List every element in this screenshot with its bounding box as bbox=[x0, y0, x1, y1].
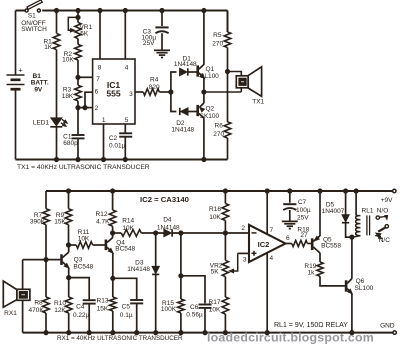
junction bbox=[98, 8, 102, 12]
svg-text:1k: 1k bbox=[308, 270, 316, 277]
transducer RX1 bbox=[3, 281, 30, 317]
diode D5 bbox=[322, 201, 350, 222]
wire bbox=[113, 232, 122, 234]
junction bbox=[44, 331, 48, 335]
svg-text:C2: C2 bbox=[109, 135, 118, 142]
relay contacts bbox=[375, 207, 390, 244]
wire bbox=[112, 226, 114, 233]
wire bbox=[77, 11, 79, 23]
wire bbox=[93, 244, 106, 246]
svg-text:0.1µ: 0.1µ bbox=[120, 312, 133, 319]
wire bbox=[45, 191, 47, 209]
diode D1 bbox=[174, 55, 197, 75]
ground bbox=[154, 50, 170, 57]
wire bbox=[161, 33, 163, 50]
wire bbox=[15, 11, 17, 76]
resistor R10 bbox=[54, 297, 72, 314]
svg-text:27: 27 bbox=[300, 232, 308, 239]
wire bbox=[351, 294, 353, 333]
svg-text:R13: R13 bbox=[97, 298, 109, 305]
transistor Q6 bbox=[346, 278, 374, 294]
diode D4 bbox=[157, 216, 180, 236]
resistor R7 bbox=[30, 209, 49, 226]
wire bbox=[69, 244, 77, 246]
wire pin3 bbox=[238, 252, 249, 254]
svg-text:loadedcircuit.blogspot.com: loadedcircuit.blogspot.com bbox=[207, 331, 374, 345]
svg-text:0.01µ: 0.01µ bbox=[109, 143, 126, 150]
junction bbox=[179, 274, 183, 278]
wire bbox=[172, 232, 249, 234]
junction bbox=[54, 8, 58, 12]
capacitor C3 bbox=[142, 27, 169, 47]
svg-text:10K: 10K bbox=[209, 306, 221, 313]
wire bbox=[204, 91, 241, 93]
capacitor C5 bbox=[120, 300, 143, 319]
wire bbox=[85, 92, 93, 107]
svg-text:C4: C4 bbox=[76, 304, 85, 311]
wire pin1 bbox=[103, 124, 105, 160]
svg-text:RX1: RX1 bbox=[4, 310, 17, 317]
junction bbox=[111, 189, 115, 193]
svg-text:15K: 15K bbox=[54, 218, 66, 225]
junction bbox=[169, 90, 173, 94]
svg-text:100µ: 100µ bbox=[296, 207, 311, 214]
wire bbox=[227, 48, 229, 122]
junction bbox=[179, 231, 183, 235]
wire bbox=[319, 191, 321, 236]
svg-text:R6: R6 bbox=[215, 123, 224, 130]
relay coil RL1 bbox=[352, 207, 374, 237]
junction bbox=[83, 106, 87, 110]
wire bbox=[68, 225, 70, 245]
svg-text:BC558: BC558 bbox=[321, 243, 341, 250]
junction bbox=[135, 331, 139, 335]
svg-text:680p: 680p bbox=[63, 140, 78, 147]
junction bbox=[318, 189, 322, 193]
wire bbox=[16, 159, 228, 161]
wire bbox=[320, 276, 346, 286]
svg-text:0.56µ: 0.56µ bbox=[186, 312, 203, 319]
junction bbox=[76, 75, 80, 79]
junction bbox=[111, 331, 115, 335]
wire bbox=[112, 311, 114, 333]
battery B1 bbox=[7, 65, 49, 93]
wire bbox=[355, 191, 357, 216]
wire bbox=[42, 10, 227, 12]
svg-text:15K: 15K bbox=[97, 305, 109, 312]
svg-text:Q6: Q6 bbox=[356, 278, 365, 285]
resistor R13 bbox=[97, 297, 117, 312]
svg-text:R10: R10 bbox=[54, 300, 66, 307]
wire bbox=[99, 11, 101, 60]
svg-text:SK100: SK100 bbox=[200, 113, 220, 120]
wire pin4 bbox=[266, 253, 268, 333]
transistor Q1 bbox=[198, 64, 219, 80]
terminal GND bbox=[380, 323, 396, 335]
transducer TX1 bbox=[236, 67, 264, 106]
wire bbox=[227, 138, 229, 160]
svg-text:+: + bbox=[18, 65, 23, 74]
resistor R11 bbox=[76, 229, 92, 248]
junction bbox=[223, 189, 227, 193]
junction bbox=[154, 331, 158, 335]
svg-text:5K: 5K bbox=[80, 31, 89, 38]
svg-text:S1: S1 bbox=[28, 13, 36, 20]
svg-text:10K: 10K bbox=[122, 225, 134, 232]
wire bbox=[188, 111, 198, 113]
svg-text:RX1 = 40KHz ULTRASONIC TRANSDU: RX1 = 40KHz ULTRASONIC TRANSDUCER bbox=[57, 335, 183, 342]
resistor R18 bbox=[292, 227, 310, 247]
wire pin5 bbox=[124, 124, 126, 133]
junction bbox=[288, 189, 292, 193]
svg-text:IC2 = CA3140: IC2 = CA3140 bbox=[140, 195, 189, 204]
wire bbox=[180, 233, 182, 299]
wire bbox=[285, 243, 291, 245]
svg-text:1N4148: 1N4148 bbox=[174, 61, 197, 68]
svg-text:C5: C5 bbox=[122, 304, 131, 311]
junction bbox=[344, 189, 348, 193]
wire bbox=[16, 10, 26, 12]
wire bbox=[88, 304, 90, 333]
svg-text:555: 555 bbox=[106, 89, 121, 99]
svg-text:SWITCH: SWITCH bbox=[21, 26, 47, 33]
resistor R15 bbox=[161, 299, 184, 313]
svg-text:5K: 5K bbox=[211, 269, 220, 276]
svg-text:R17: R17 bbox=[209, 299, 221, 306]
svg-text:25V: 25V bbox=[297, 215, 309, 222]
diode D2 bbox=[171, 108, 194, 134]
wire bbox=[112, 191, 114, 210]
wire bbox=[227, 11, 229, 33]
wire bbox=[45, 313, 47, 333]
wire bbox=[56, 11, 58, 34]
svg-text:RL1: RL1 bbox=[362, 207, 374, 214]
svg-text:1K: 1K bbox=[44, 44, 53, 51]
resistor R2 bbox=[62, 44, 81, 63]
wire bbox=[68, 268, 70, 278]
svg-text:TX1: TX1 bbox=[252, 98, 264, 105]
wire bbox=[45, 225, 47, 297]
potentiometer VR1 bbox=[68, 17, 92, 38]
junction bbox=[350, 235, 354, 239]
wire bbox=[46, 190, 393, 192]
wire bbox=[68, 278, 70, 297]
svg-text:18K: 18K bbox=[62, 93, 74, 100]
svg-text:7: 7 bbox=[96, 76, 100, 83]
svg-text:470K: 470K bbox=[29, 307, 45, 314]
LED LED1 bbox=[33, 118, 67, 127]
junction bbox=[67, 331, 71, 335]
svg-text:8: 8 bbox=[98, 64, 102, 71]
resistor R3 bbox=[62, 85, 82, 101]
label RX1 note bbox=[57, 335, 183, 342]
svg-text:LED1: LED1 bbox=[33, 119, 50, 126]
junction bbox=[223, 231, 227, 235]
svg-text:270: 270 bbox=[213, 131, 224, 138]
svg-text:9V: 9V bbox=[34, 86, 43, 93]
svg-text:N/C: N/C bbox=[379, 237, 391, 244]
wire bbox=[228, 72, 242, 93]
wire bbox=[224, 221, 226, 261]
junction bbox=[111, 276, 115, 280]
svg-text:25V: 25V bbox=[143, 40, 155, 47]
junction bbox=[66, 189, 70, 193]
wire bbox=[68, 191, 70, 209]
resistor R4 bbox=[143, 76, 160, 95]
wire bbox=[203, 92, 205, 103]
svg-text:10K: 10K bbox=[78, 236, 90, 243]
capacitor C2 bbox=[109, 133, 132, 149]
svg-text:4: 4 bbox=[125, 64, 129, 71]
svg-text:R8: R8 bbox=[34, 300, 43, 307]
wire bbox=[346, 223, 352, 237]
wire bbox=[319, 253, 321, 262]
resistor R17 bbox=[209, 297, 229, 314]
svg-text:2: 2 bbox=[241, 225, 245, 232]
wire bbox=[351, 237, 353, 279]
resistor R16 bbox=[209, 204, 229, 221]
junction bbox=[67, 276, 71, 280]
wire bbox=[181, 276, 205, 304]
junction bbox=[179, 331, 183, 335]
wire bbox=[204, 308, 206, 333]
wire bbox=[124, 137, 126, 160]
capacitor C4 bbox=[73, 300, 96, 319]
resistor R5 bbox=[212, 32, 231, 48]
svg-text:10K: 10K bbox=[62, 56, 74, 63]
wire bbox=[203, 118, 205, 159]
junction bbox=[203, 331, 207, 335]
svg-text:RL1 = 9V, 150Ω RELAY: RL1 = 9V, 150Ω RELAY bbox=[274, 322, 348, 329]
junction bbox=[354, 189, 358, 193]
junction bbox=[225, 69, 229, 73]
resistor R14 bbox=[121, 218, 141, 237]
junction bbox=[202, 8, 206, 12]
junction bbox=[202, 90, 206, 94]
junction bbox=[44, 258, 48, 262]
label TX1 note bbox=[17, 164, 150, 171]
wire bbox=[161, 11, 163, 27]
svg-text:Q1: Q1 bbox=[205, 66, 214, 73]
wire pin7 bbox=[266, 191, 268, 234]
junction bbox=[202, 157, 206, 161]
svg-text:Q2: Q2 bbox=[205, 106, 214, 113]
wire bbox=[141, 232, 164, 234]
IC IC1 555 timer bbox=[93, 59, 135, 124]
resistor R12 bbox=[96, 210, 116, 226]
wire bbox=[180, 313, 182, 333]
wire bbox=[224, 277, 226, 297]
wire bbox=[171, 72, 177, 92]
svg-text:3: 3 bbox=[243, 257, 247, 264]
wire bbox=[77, 138, 79, 159]
transistor Q5 bbox=[312, 236, 341, 253]
wire pin3 bbox=[135, 91, 143, 93]
wire bbox=[78, 76, 93, 78]
potentiometer VR2 bbox=[210, 253, 238, 276]
wire bbox=[307, 243, 311, 245]
switch S1 bbox=[21, 0, 47, 33]
wire bbox=[155, 274, 157, 332]
svg-text:N/O: N/O bbox=[377, 207, 389, 214]
junction bbox=[160, 8, 164, 12]
svg-text:GND: GND bbox=[380, 323, 395, 330]
junction bbox=[66, 243, 70, 247]
wire bbox=[77, 101, 79, 135]
svg-text:R4: R4 bbox=[150, 76, 159, 83]
svg-text:R12: R12 bbox=[96, 211, 108, 218]
svg-text:5: 5 bbox=[125, 117, 129, 124]
wire bbox=[56, 50, 58, 118]
resistor R19 bbox=[304, 262, 323, 277]
capacitor C6 bbox=[186, 304, 211, 319]
wire bbox=[112, 278, 114, 297]
capacitor C7 bbox=[283, 199, 311, 222]
svg-text:BC548: BC548 bbox=[115, 246, 135, 253]
resistor R9 bbox=[54, 209, 72, 226]
junction bbox=[101, 157, 105, 161]
junction bbox=[54, 157, 58, 161]
label RL1 note bbox=[274, 322, 348, 329]
svg-text:390K: 390K bbox=[30, 218, 46, 225]
svg-text:R5: R5 bbox=[213, 32, 222, 39]
wire bbox=[113, 278, 137, 300]
wire bbox=[23, 259, 62, 261]
wire bbox=[56, 127, 58, 160]
svg-text:3: 3 bbox=[129, 91, 133, 98]
wire bbox=[289, 191, 291, 203]
svg-text:TX1 = 40KHz ULTRASONIC TRANSDU: TX1 = 40KHz ULTRASONIC TRANSDUCER bbox=[17, 164, 150, 171]
wire bbox=[136, 303, 138, 332]
transistor Q2 bbox=[198, 103, 220, 120]
wire bbox=[22, 260, 24, 333]
transistor Q3 bbox=[62, 252, 94, 270]
svg-text:6: 6 bbox=[95, 89, 99, 96]
label IC2 note bbox=[140, 195, 189, 204]
capacitor C1 bbox=[63, 133, 84, 147]
svg-text:R14: R14 bbox=[122, 218, 134, 225]
wire bbox=[224, 314, 226, 333]
wire bbox=[77, 60, 79, 85]
svg-text:1N4007: 1N4007 bbox=[322, 208, 345, 215]
svg-text:270: 270 bbox=[212, 41, 223, 48]
wire bbox=[289, 210, 291, 221]
wire bbox=[68, 245, 70, 252]
wire bbox=[188, 71, 198, 73]
wire bbox=[77, 39, 79, 45]
svg-text:C7: C7 bbox=[298, 199, 307, 206]
wire bbox=[124, 11, 126, 60]
svg-text:1N4148: 1N4148 bbox=[171, 127, 194, 134]
svg-text:R16: R16 bbox=[209, 206, 221, 213]
svg-text:D4: D4 bbox=[163, 216, 172, 223]
junction bbox=[123, 157, 127, 161]
svg-text:6: 6 bbox=[286, 235, 290, 242]
junction bbox=[265, 189, 269, 193]
wire bbox=[171, 92, 177, 112]
wire bbox=[69, 278, 90, 300]
svg-text:7: 7 bbox=[270, 227, 274, 234]
svg-text:10K: 10K bbox=[209, 214, 221, 221]
svg-text:SL100: SL100 bbox=[200, 73, 219, 80]
svg-text:1N4148: 1N4148 bbox=[157, 224, 180, 231]
junction bbox=[223, 331, 227, 335]
junction bbox=[76, 8, 80, 12]
watermark bbox=[207, 331, 374, 345]
junction bbox=[76, 15, 80, 19]
wire bbox=[112, 253, 114, 278]
wire bbox=[15, 89, 17, 159]
svg-text:12K: 12K bbox=[54, 307, 66, 314]
svg-text:1: 1 bbox=[102, 117, 106, 124]
wire bbox=[203, 78, 205, 92]
op-amp IC2 CA3140 bbox=[241, 225, 290, 264]
diode D3 bbox=[127, 260, 159, 275]
svg-text:1N4148: 1N4148 bbox=[127, 266, 150, 273]
junction bbox=[76, 106, 80, 110]
resistor R8 bbox=[29, 297, 50, 314]
svg-text:100K: 100K bbox=[161, 306, 177, 313]
junction bbox=[350, 331, 354, 335]
junction bbox=[111, 231, 115, 235]
svg-text:4: 4 bbox=[270, 255, 274, 262]
wire bbox=[345, 191, 347, 215]
ground bbox=[282, 221, 298, 228]
wire bbox=[159, 91, 171, 93]
wire bbox=[224, 191, 226, 204]
transistor Q4 bbox=[106, 238, 136, 254]
svg-text:IC2: IC2 bbox=[258, 240, 270, 249]
wire bbox=[203, 11, 205, 65]
wire bbox=[68, 313, 70, 333]
svg-text:+9V: +9V bbox=[381, 197, 393, 204]
junction bbox=[123, 8, 127, 12]
junction bbox=[87, 331, 91, 335]
resistor R1 bbox=[43, 33, 59, 51]
svg-text:4.7K: 4.7K bbox=[96, 219, 110, 226]
wire bbox=[78, 107, 93, 109]
wire bbox=[112, 233, 114, 238]
resistor R6 bbox=[213, 122, 231, 138]
svg-text:C6: C6 bbox=[190, 304, 199, 311]
terminal +9V bbox=[381, 189, 396, 204]
svg-text:820: 820 bbox=[149, 84, 160, 91]
junction bbox=[265, 331, 269, 335]
svg-text:2: 2 bbox=[95, 105, 99, 112]
junction bbox=[76, 157, 80, 161]
junction bbox=[154, 231, 158, 235]
svg-text:BC548: BC548 bbox=[73, 263, 93, 270]
wire bbox=[23, 332, 393, 334]
wire bbox=[155, 233, 157, 266]
svg-text:SL100: SL100 bbox=[355, 285, 374, 292]
svg-text:0.22µ: 0.22µ bbox=[73, 312, 90, 319]
